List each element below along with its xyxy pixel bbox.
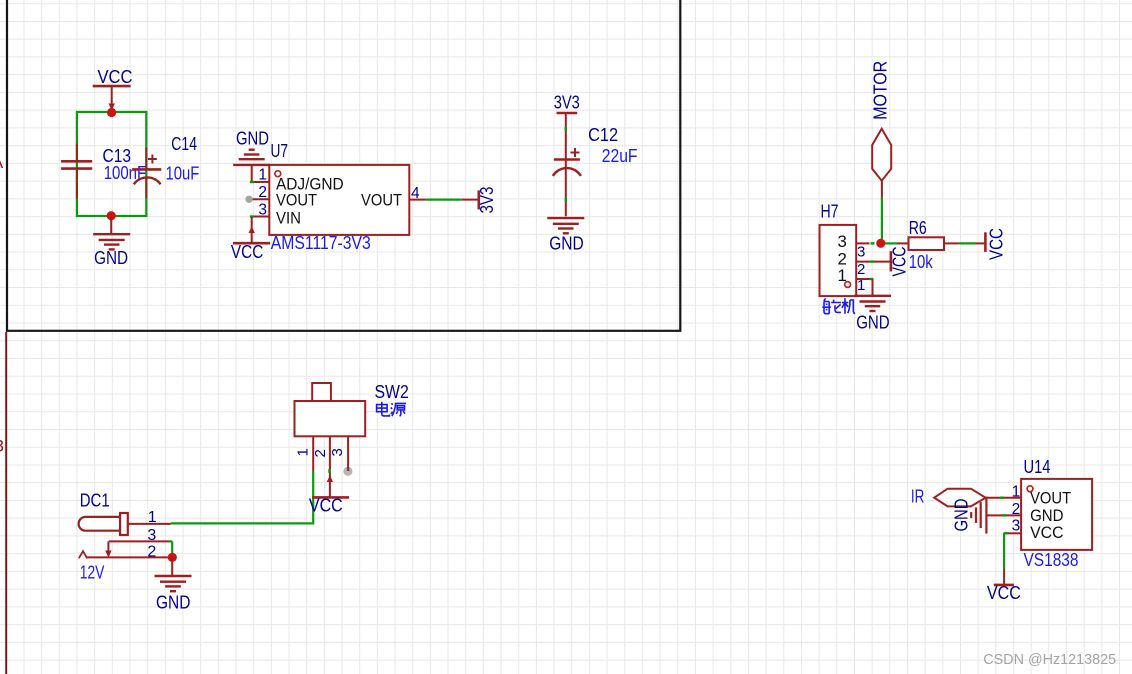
SW2 actuator tab: [312, 383, 331, 401]
R6 body: [909, 237, 945, 250]
svg-text:1: 1: [1012, 483, 1021, 500]
power port VCC (SW2 pin 2): [312, 496, 349, 499]
svg-text:IR: IR: [911, 487, 925, 507]
wire junction to R6: [885, 242, 898, 244]
wire DC1 pin3 down to junction: [171, 541, 173, 553]
H7 pin 2: [856, 261, 890, 263]
U14 pin 1 VOUT: [986, 497, 1022, 499]
svg-text:GND: GND: [94, 248, 128, 268]
DC1 switch arm with arrow: [107, 541, 109, 551]
sheet border (black): [7, 0, 680, 331]
wire DC1 pin3 elbow: [169, 540, 173, 542]
svg-text:3V3: 3V3: [477, 187, 497, 214]
svg-text:VCC: VCC: [98, 67, 133, 87]
ground (H7 pin 1): [854, 295, 891, 297]
H7 pin 3: [856, 242, 869, 244]
pin 2 VOUT (left): [252, 198, 269, 200]
wire SW2 pin1 to DC1 pin1: [171, 471, 314, 524]
U14 pin 2 GND: [986, 514, 1021, 516]
svg-text:3: 3: [329, 448, 346, 456]
SW2 pin 2: [329, 436, 331, 497]
svg-text:VIN: VIN: [276, 209, 301, 228]
H7 pin 1: [856, 278, 872, 280]
svg-text:2: 2: [147, 544, 156, 561]
pin-1 dot H7: [845, 282, 851, 288]
svg-text:12V: 12V: [80, 563, 105, 583]
power port VCC (U7 pin 3): [251, 217, 253, 244]
outer sheet border (red): [5, 332, 7, 674]
svg-text:R6: R6: [909, 218, 927, 238]
pin 1 ADJ/GND: [252, 181, 270, 183]
DC1 barrel (pill): [79, 517, 120, 531]
ground (U7 pin 1): [251, 165, 253, 182]
wire U7 VOUT to 3V3: [426, 199, 462, 201]
svg-text:3: 3: [0, 437, 4, 456]
svg-text:GND: GND: [856, 313, 890, 333]
DC1 pin 3: [109, 540, 169, 542]
svg-text:22uF: 22uF: [602, 146, 638, 166]
pin-1 dot U7: [275, 171, 281, 177]
power port 3V3 (C12): [557, 112, 578, 115]
power port VCC (H7 pin 2, rotated): [890, 251, 893, 271]
pin 3 VIN: [252, 216, 269, 218]
capacitor C12 (polarized): [565, 113, 567, 216]
SW2 pin 1: [312, 436, 314, 470]
svg-text:VCC: VCC: [987, 228, 1007, 260]
wire U14 VCC pin down: [1003, 533, 1005, 568]
ground (below filter): [110, 217, 112, 234]
svg-text:3: 3: [1012, 518, 1021, 535]
node MOTOR (spindle): [872, 129, 891, 181]
DC1 plug bar: [120, 513, 128, 535]
lead to ground: [171, 557, 173, 576]
svg-text:VOUT: VOUT: [1030, 488, 1071, 507]
svg-text:C14: C14: [171, 134, 197, 154]
svg-text:U14: U14: [1024, 457, 1051, 477]
power port VCC (top-left): [93, 85, 131, 88]
capacitor C14 (polarized): [145, 147, 147, 168]
svg-text:GND: GND: [156, 592, 190, 612]
svg-text:2: 2: [258, 184, 267, 201]
power port VCC (R6 right, rotated): [976, 242, 984, 244]
svg-text:C12: C12: [588, 125, 618, 145]
pin 4 VOUT (right): [409, 199, 425, 201]
svg-text:2: 2: [312, 449, 329, 457]
svg-text:3V3: 3V3: [554, 92, 580, 112]
IC body U14: [1021, 479, 1092, 550]
SW2 pin 3 (with no-connect dot): [343, 467, 352, 476]
MOTOR pin lead: [881, 181, 883, 197]
svg-text:VCC: VCC: [1030, 523, 1063, 542]
svg-text:1: 1: [295, 448, 312, 456]
svg-text:2: 2: [857, 261, 865, 278]
wire: filter loop rectangle: [77, 112, 146, 216]
svg-text:1: 1: [148, 509, 157, 526]
svg-text:VCC: VCC: [309, 496, 343, 516]
svg-text:GND: GND: [951, 499, 971, 532]
op-amp-style IC body U7: [269, 165, 409, 235]
svg-text:3: 3: [857, 243, 865, 260]
junction B: [107, 211, 116, 220]
svg-text:VCC: VCC: [890, 247, 910, 277]
svg-text:VS1838: VS1838: [1024, 550, 1079, 570]
SW2 body: [295, 401, 366, 436]
DC1 pin 2: [86, 556, 172, 558]
power port VCC (U14 pin 3): [1003, 569, 1005, 585]
wire R6 to VCC: [959, 242, 977, 244]
connector H7: [820, 225, 857, 296]
svg-text:GND: GND: [549, 233, 584, 253]
svg-text:H7: H7: [821, 202, 839, 222]
svg-text:4: 4: [411, 185, 420, 202]
pin-1 dot U14: [1027, 486, 1033, 492]
ground (DC1): [155, 575, 192, 577]
svg-text:10k: 10k: [909, 252, 934, 272]
power port 3V3 (U7 pin 4): [462, 199, 478, 201]
svg-text:AMS1117-3V3: AMS1117-3V3: [271, 233, 371, 253]
svg-text:1: 1: [838, 266, 847, 285]
svg-text:VOUT: VOUT: [276, 191, 317, 210]
svg-text:3: 3: [147, 527, 156, 544]
U14 pin 3 VCC: [1007, 532, 1022, 534]
ground (C12): [547, 217, 584, 219]
svg-text:1: 1: [258, 167, 267, 184]
capacitor C13: [76, 144, 78, 161]
舵机 label (stylized): [822, 298, 855, 313]
svg-text:U7: U7: [271, 141, 289, 161]
svg-text:VCC: VCC: [231, 242, 263, 262]
resistor R6: [898, 242, 909, 244]
DC1 pin 1: [128, 523, 171, 525]
svg-text:1: 1: [857, 277, 865, 294]
svg-text:10uF: 10uF: [166, 164, 200, 184]
svg-text:2: 2: [1012, 501, 1021, 518]
电源 label (stylized): [377, 402, 406, 416]
svg-text:3: 3: [258, 201, 267, 218]
node IR (spindle): [934, 489, 985, 507]
ground (U14 pin 2, rotated): [985, 497, 987, 534]
junction A: [107, 108, 116, 117]
svg-text:GND: GND: [236, 128, 269, 148]
junction D: [168, 553, 177, 562]
svg-text:CSDN @Hz1213825: CSDN @Hz1213825: [983, 652, 1116, 668]
wire MOTOR to junction: [881, 197, 883, 240]
svg-text:SW2: SW2: [375, 382, 409, 402]
svg-text:DC1: DC1: [80, 491, 110, 511]
svg-text:VOUT: VOUT: [361, 191, 402, 210]
svg-text:VCC: VCC: [987, 583, 1021, 603]
junction C: [876, 239, 885, 248]
svg-text:MOTOR: MOTOR: [870, 61, 890, 120]
